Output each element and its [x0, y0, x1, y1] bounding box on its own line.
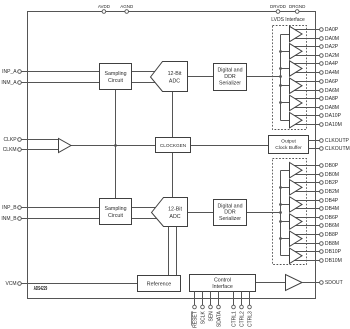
svg-text:ADC: ADC	[169, 78, 180, 84]
svg-text:DB2P: DB2P	[325, 180, 339, 186]
pin INP_A	[2, 69, 21, 75]
svg-text:SEN: SEN	[208, 311, 214, 322]
outer box ADS4229 chip boundary	[28, 12, 316, 299]
wire output DA2M	[294, 55, 320, 57]
pin DB6P	[320, 215, 339, 221]
junction LVDS bank B bus tap 5	[279, 237, 282, 240]
pin DB6M	[320, 223, 339, 229]
wire CLKM to internal block	[21, 149, 58, 151]
svg-text:Digital and: Digital and	[217, 68, 242, 74]
LVDS buffer B6	[290, 248, 303, 263]
svg-text:DRGND: DRGND	[289, 4, 306, 9]
pin DA4M	[320, 70, 339, 76]
svg-text:DDR: DDR	[224, 210, 236, 216]
svg-text:CLKP: CLKP	[4, 137, 18, 143]
pin SDOUT	[320, 280, 343, 286]
wire Serializer A to LVDS bank A input	[247, 76, 281, 78]
svg-text:Output: Output	[281, 139, 296, 145]
wire LVDS bank A buffer 5 input stub	[281, 102, 291, 104]
wire RESET stem	[194, 292, 196, 306]
pin DB0M	[320, 172, 339, 178]
svg-text:DB4P: DB4P	[325, 198, 339, 204]
pin DA6M	[320, 88, 339, 94]
svg-text:Circuit: Circuit	[108, 78, 124, 84]
LVDS buffer A5	[290, 95, 303, 110]
svg-text:DA2P: DA2P	[325, 44, 339, 50]
svg-text:DB0M: DB0M	[325, 172, 339, 178]
svg-text:DA6P: DA6P	[325, 79, 339, 85]
wire output DA0P	[294, 29, 320, 31]
svg-text:INP_A: INP_A	[2, 69, 17, 75]
svg-text:ADC: ADC	[169, 214, 180, 220]
wire CTRL1 stem	[233, 292, 235, 306]
svg-text:DA0P: DA0P	[325, 27, 339, 33]
wire LVDS bank A buffer 1 input stub	[281, 34, 291, 36]
svg-text:Reference: Reference	[147, 281, 171, 287]
pin INP_B	[2, 205, 21, 211]
LVDS interface dashed box bank B	[273, 159, 307, 265]
pin DA2M	[320, 53, 339, 59]
svg-text:DB2M: DB2M	[325, 189, 339, 195]
wire LVDS bank B buffer 1 input stub	[281, 170, 291, 172]
wire LVDS bank B buffer 2 input stub	[281, 187, 291, 189]
wire output DA8M	[294, 107, 320, 109]
pin DRGND	[289, 4, 306, 13]
svg-text:DA4P: DA4P	[325, 61, 339, 67]
wire LVDS bank A input bus vertical	[280, 35, 282, 121]
wire INM_A to internal block	[21, 82, 99, 84]
pin DRVDD	[270, 4, 287, 13]
svg-text:DA2M: DA2M	[325, 53, 339, 59]
LVDS interface dashed box bank A	[273, 26, 307, 130]
svg-text:INP_B: INP_B	[2, 205, 17, 211]
pin CTRL3	[247, 305, 253, 327]
wire output DB6P	[294, 217, 320, 219]
svg-text:SCLK: SCLK	[200, 311, 206, 325]
svg-text:DB8M: DB8M	[325, 241, 339, 247]
wire output CLKOUTP	[309, 140, 320, 142]
wire output DB2M	[294, 191, 320, 193]
wire output DB6M	[294, 225, 320, 227]
svg-text:DB10M: DB10M	[325, 258, 342, 264]
pin DB8M	[320, 241, 339, 247]
wire output DA4P	[294, 63, 320, 65]
pin DB4P	[320, 198, 339, 204]
svg-text:DB4M: DB4M	[325, 206, 339, 212]
svg-text:Sampling: Sampling	[104, 206, 126, 212]
pin SDATA	[216, 305, 222, 327]
svg-text:CLOCKGEN: CLOCKGEN	[160, 143, 186, 148]
wire LVDS bank A buffer 6 input stub	[281, 120, 291, 122]
svg-text:DA0M: DA0M	[325, 36, 339, 42]
LVDS buffer B2	[290, 180, 303, 195]
wire ADC B to Reference (left)	[168, 227, 170, 276]
junction LVDS bank B bus tap 3	[279, 203, 282, 206]
svg-text:ADS4229: ADS4229	[34, 286, 48, 292]
wire LVDS bank B buffer 5 input stub	[281, 238, 291, 240]
svg-text:AVDD: AVDD	[98, 4, 111, 9]
svg-text:Sampling: Sampling	[104, 71, 126, 77]
label ADS4229 part number	[34, 286, 48, 292]
wire output DB0P	[294, 165, 320, 167]
svg-text:DA6M: DA6M	[325, 88, 339, 94]
junction LVDS bank B feed node	[279, 211, 282, 214]
wire SDOUT	[302, 282, 320, 284]
pin INM_A	[1, 80, 21, 86]
svg-text:DA10M: DA10M	[325, 122, 342, 128]
wire output DB10P	[294, 251, 320, 253]
wire Serializer B to LVDS bank B input	[247, 212, 281, 214]
svg-text:INM_A: INM_A	[1, 80, 17, 86]
wire CLOCKGEN to ADC B vertical	[172, 153, 174, 198]
block Output Clock Buffer	[269, 136, 309, 154]
junction LVDS bank A feed node	[279, 75, 282, 78]
LVDS buffer B1	[290, 163, 303, 178]
svg-text:12-Bit: 12-Bit	[168, 207, 182, 213]
wire CLOCKGEN to Output Clock Buffer	[191, 145, 269, 147]
block 12-Bit ADC channel A	[151, 62, 188, 92]
wire Sampling Circuit A to ADC A (positive)	[132, 71, 159, 73]
pin CLKP	[4, 137, 22, 143]
wire LVDS bank B input bus vertical	[280, 171, 282, 256]
LVDS buffer A2	[290, 44, 303, 59]
svg-text:SDATA: SDATA	[216, 311, 222, 328]
LVDS buffer A1	[290, 26, 303, 41]
junction LVDS bank A bus tap 5	[279, 101, 282, 104]
svg-text:Serializer: Serializer	[219, 216, 241, 222]
pin RESET	[192, 305, 199, 328]
pin DB2P	[320, 180, 339, 186]
pin DB4M	[320, 206, 339, 212]
wire output DA6M	[294, 90, 320, 92]
pin CLKOUTP	[320, 138, 350, 144]
pin DB10M	[320, 258, 342, 264]
pin DA4P	[320, 61, 339, 67]
pin DA8P	[320, 96, 339, 102]
wire output DA2P	[294, 46, 320, 48]
wire output DB0M	[294, 174, 320, 176]
pin CTRL1	[231, 305, 237, 327]
junction LVDS bank B bus tap 2	[279, 186, 282, 189]
wire output DA6P	[294, 81, 320, 83]
pin AVDD	[98, 4, 111, 13]
svg-text:CLKOUTM: CLKOUTM	[325, 146, 350, 152]
wire ADC B to Digital and DDR Serializer B	[188, 212, 214, 214]
svg-text:DB10P: DB10P	[325, 249, 342, 255]
wire sampling clock vertical (Sampling A to Sampling B)	[115, 90, 117, 199]
wire ADC A to Digital and DDR Serializer A	[188, 76, 214, 78]
junction LVDS bank B bus tap 4	[279, 220, 282, 223]
wire LVDS bank B buffer 4 input stub	[281, 221, 291, 223]
block Reference	[138, 276, 181, 292]
pin DB2M	[320, 189, 339, 195]
block 12-Bit ADC channel B	[152, 198, 188, 227]
pin DA2P	[320, 44, 339, 50]
wire SDATA stem	[218, 292, 220, 306]
LVDS buffer B5	[290, 231, 303, 246]
pin DA10P	[320, 113, 342, 119]
pin INM_B	[1, 216, 21, 222]
pin DA10M	[320, 122, 342, 128]
wire output DB8M	[294, 243, 320, 245]
pin DB10P	[320, 249, 342, 255]
wire Sampling Circuit B to ADC B (positive)	[132, 207, 159, 209]
svg-text:LVDS Interface: LVDS Interface	[271, 17, 305, 23]
wire Sampling Circuit B to ADC B (negative)	[132, 218, 159, 220]
LVDS buffer B3	[290, 197, 303, 212]
pin DA0P	[320, 27, 339, 33]
wire output DB4P	[294, 200, 320, 202]
block Control Interface	[190, 275, 256, 292]
svg-text:DA8M: DA8M	[325, 105, 339, 111]
wire output DA10P	[294, 115, 320, 117]
junction LVDS bank A bus tap 3	[279, 67, 282, 70]
wire output DB8P	[294, 234, 320, 236]
svg-text:Clock Buffer: Clock Buffer	[275, 145, 302, 151]
svg-text:Circuit: Circuit	[108, 213, 124, 219]
wire CLKP to internal block	[21, 139, 58, 141]
wire CTRL3 stem	[249, 292, 251, 306]
pin SCLK	[200, 305, 206, 324]
wire CTRL2 stem	[241, 292, 243, 306]
svg-text:12-Bit: 12-Bit	[168, 71, 182, 77]
pin AGND	[120, 4, 134, 13]
pin SEN	[208, 305, 214, 321]
wire INP_B to internal block	[21, 207, 99, 209]
wire Control Interface to SDOUT buffer	[256, 282, 286, 284]
svg-text:DA8P: DA8P	[325, 96, 339, 102]
pin DA6P	[320, 79, 339, 85]
svg-text:DDR: DDR	[224, 74, 236, 80]
svg-text:DB8P: DB8P	[325, 232, 339, 238]
wire output DB2P	[294, 182, 320, 184]
junction LVDS bank A bus tap 4	[279, 84, 282, 87]
pin DB8P	[320, 232, 339, 238]
LVDS buffer B4	[290, 214, 303, 229]
wire output CLKOUTM	[309, 148, 320, 150]
wire output DA10M	[294, 124, 320, 126]
svg-text:DA10P: DA10P	[325, 113, 342, 119]
wire INP_A to internal block	[21, 71, 99, 73]
junction LVDS bank A bus tap 2	[279, 50, 282, 53]
wire ADC A to CLOCKGEN vertical	[172, 92, 174, 138]
wire LVDS bank B buffer 3 input stub	[281, 204, 291, 206]
SDOUT output buffer	[286, 275, 303, 291]
wire LVDS bank A buffer 2 input stub	[281, 51, 291, 53]
pin DA0M	[320, 36, 339, 42]
junction sampling clock node	[114, 144, 117, 147]
svg-text:CLKM: CLKM	[3, 147, 17, 153]
block Sampling Circuit channel A	[100, 64, 132, 90]
wire INM_B to internal block	[21, 218, 99, 220]
svg-text:VCM: VCM	[5, 281, 16, 287]
wire output DA8P	[294, 98, 320, 100]
svg-text:CTRL2: CTRL2	[239, 311, 245, 327]
wire output DA4M	[294, 72, 320, 74]
wire SCLK stem	[202, 292, 204, 306]
wire output DA0M	[294, 38, 320, 40]
block Digital and DDR Serializer channel B	[214, 200, 247, 226]
wire LVDS bank A buffer 4 input stub	[281, 85, 291, 87]
wire LVDS bank A buffer 3 input stub	[281, 68, 291, 70]
wire output DB4M	[294, 208, 320, 210]
svg-text:DA4M: DA4M	[325, 70, 339, 76]
pin CLKM	[3, 147, 22, 153]
LVDS buffer A3	[290, 61, 303, 76]
wire output DB10M	[294, 260, 320, 262]
wire ADC B to Reference (right)	[176, 227, 178, 276]
pin DA8M	[320, 105, 339, 111]
svg-text:Serializer: Serializer	[219, 80, 241, 86]
svg-text:Control: Control	[214, 277, 231, 283]
svg-text:RESET: RESET	[192, 311, 198, 328]
wire clock buffer output to CLOCKGEN	[71, 145, 156, 147]
LVDS buffer A6	[290, 113, 303, 128]
svg-text:Digital and: Digital and	[217, 203, 242, 209]
pin VCM	[5, 281, 21, 287]
block Sampling Circuit channel B	[100, 199, 132, 225]
svg-text:CLKOUTP: CLKOUTP	[325, 138, 350, 144]
svg-text:DB0P: DB0P	[325, 163, 339, 169]
block Digital and DDR Serializer channel A	[214, 64, 247, 91]
svg-text:CTRL3: CTRL3	[247, 311, 253, 327]
svg-text:DB6M: DB6M	[325, 223, 339, 229]
svg-text:INM_B: INM_B	[1, 216, 17, 222]
block CLOCKGEN	[156, 138, 191, 153]
svg-text:Interface: Interface	[212, 284, 233, 290]
clock input buffer	[59, 139, 72, 153]
wire SEN stem	[210, 292, 212, 306]
pin DB0P	[320, 163, 339, 169]
wire Sampling Circuit A to ADC A (negative)	[132, 82, 159, 84]
svg-text:DB6P: DB6P	[325, 215, 339, 221]
pin CTRL2	[239, 305, 245, 327]
svg-text:CTRL1: CTRL1	[231, 311, 237, 327]
svg-text:SDOUT: SDOUT	[325, 280, 343, 286]
wire VCM to internal block	[21, 283, 137, 285]
svg-text:AGND: AGND	[120, 4, 134, 9]
pin CLKOUTM	[320, 146, 350, 152]
label LVDS Interface	[271, 17, 305, 23]
LVDS buffer A4	[290, 78, 303, 93]
wire LVDS bank B buffer 6 input stub	[281, 255, 291, 257]
svg-text:DRVDD: DRVDD	[270, 4, 287, 9]
